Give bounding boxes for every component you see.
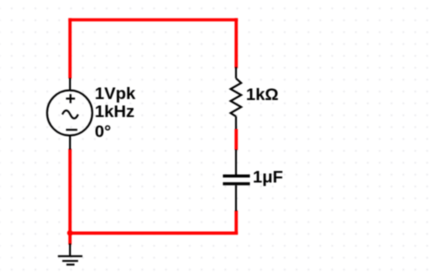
plate top bbox=[223, 175, 250, 178]
wire left vertical lower (source bottom pin to ground junction) bbox=[68, 149, 71, 235]
svg-text:1kHz: 1kHz bbox=[95, 102, 135, 121]
plate bottom bbox=[223, 182, 250, 185]
pin 1 (top) bbox=[69, 78, 71, 90]
ground bar 3 bbox=[66, 264, 74, 266]
resistor 1kOhm bbox=[231, 67, 242, 129]
minus sign bbox=[66, 129, 77, 131]
plus sign bbox=[66, 98, 75, 100]
wire ground stub (junction to ground symbol pin) bbox=[68, 233, 71, 245]
pin 2 (bottom) bbox=[235, 116, 237, 129]
wire top horizontal bbox=[68, 18, 237, 21]
svg-text:1μF: 1μF bbox=[253, 167, 283, 186]
ground pin bbox=[69, 244, 71, 257]
ground bbox=[58, 244, 83, 265]
wire right vertical middle (resistor bottom pin to capacitor top pin) bbox=[235, 129, 238, 150]
capacitor 1uF bbox=[223, 150, 250, 212]
pin 1 (top) bbox=[235, 150, 237, 175]
junction node at ground bbox=[67, 230, 73, 236]
ground bar 2 bbox=[62, 260, 78, 262]
body circle bbox=[47, 90, 92, 135]
value label 1Vpk 1kHz 0deg bbox=[95, 84, 136, 141]
value label 1kOhm bbox=[246, 85, 279, 104]
svg-text:1Vpk: 1Vpk bbox=[95, 84, 136, 103]
wire right vertical upper (top corner to resistor top pin) bbox=[235, 18, 238, 68]
zigzag body bbox=[231, 78, 242, 116]
value label 1uF bbox=[253, 167, 283, 186]
pin 2 (bottom) bbox=[235, 185, 237, 211]
sine wave bbox=[62, 110, 78, 118]
ground bar 1 bbox=[58, 255, 83, 257]
wire bottom horizontal bbox=[68, 232, 237, 235]
pin 2 (bottom) bbox=[69, 136, 71, 150]
svg-text:0°: 0° bbox=[95, 122, 111, 141]
wire left vertical upper (top corner to source top pin) bbox=[68, 18, 71, 78]
wire right vertical lower (capacitor bottom pin to bottom corner) bbox=[235, 211, 238, 235]
svg-text:1kΩ: 1kΩ bbox=[246, 85, 279, 104]
pin 1 (top) bbox=[235, 67, 237, 78]
AC voltage source V1 bbox=[47, 78, 92, 150]
